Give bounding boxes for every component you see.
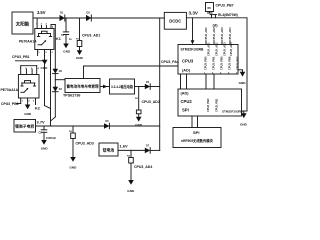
svg-text:CPU3_PB5: CPU3_PB5 [219,56,223,70]
svg-text:CPU3_AD2: CPU3_AD2 [212,27,216,41]
relay K2 [18,66,39,105]
svg-text:TPS62736: TPS62736 [63,94,80,98]
node CPU3_AD4 divider [127,150,152,180]
transistor Q1 [208,12,217,18]
svg-text:CPU3_PB1: CPU3_PB1 [211,56,215,70]
svg-text:CPU3_AD3: CPU3_AD3 [222,42,226,56]
svg-text:CPU2: CPU2 [181,99,193,104]
svg-text:CPU3_PA4: CPU3_PA4 [161,60,179,64]
svg-text:CPU3_AD2: CPU3_AD2 [142,100,160,104]
DCDC converter [164,12,186,29]
wire battery rail [36,125,160,127]
relay K1 [35,24,56,56]
node CPU3 PB pin labels [203,42,239,70]
ground (AD2) [135,117,143,127]
ground (C1) [63,44,71,54]
svg-text:GND: GND [70,166,78,170]
svg-text:GND: GND [63,50,71,54]
wire cell diode to rail [150,149,160,151]
ground (AD4) [127,180,135,193]
wire K1 pin3 down [50,56,52,127]
wire CPU2-SPI links [192,116,198,128]
svg-text:D2: D2 [87,11,91,15]
svg-text:STM32F103RB: STM32F103RB [222,109,244,113]
wire right edge drop [246,18,248,111]
ground (K1 pin2 tap) [41,60,49,70]
diode D6 [104,120,109,129]
svg-text:太阳能: 太阳能 [16,21,30,28]
diode D5 [145,81,150,90]
svg-text:(d): (d) [213,23,219,28]
svg-text:GND: GND [239,81,247,85]
svg-text:CPU3_AD3: CPU3_AD3 [76,142,94,146]
capacitor C1 branch [61,18,72,44]
svg-text:SPI: SPI [182,107,189,112]
wire between diodes [54,74,56,87]
wire K1 pin2 down [45,56,51,109]
svg-text:锂离子电容: 锂离子电容 [15,124,34,129]
wire PB1 to K1 [16,60,45,62]
wire diode column [54,25,56,69]
wire cell rail [118,149,145,151]
ground (AD1) [76,50,84,60]
wire diode to rail [150,86,160,88]
diode D7 [145,145,150,154]
node CPU3_AD2 divider [135,87,160,117]
svg-text:CPU3_PB0: CPU3_PB0 [203,56,207,70]
svg-text:CPU3_AD1: CPU3_AD1 [82,33,100,37]
svg-text:钮电池: 钮电池 [103,148,115,153]
svg-text:CPU3_AD4: CPU3_AD4 [134,165,152,169]
svg-text:CPU3_AD1: CPU3_AD1 [204,27,208,41]
svg-text:蓄电池充电与电管理: 蓄电池充电与电管理 [67,84,100,89]
svg-text:CPU3_AD4: CPU3_AD4 [228,27,232,41]
node CPU3 ADC pin stubs [204,27,232,45]
svg-text:GND: GND [127,189,135,193]
solar panel box [12,12,33,34]
svg-text:GND: GND [240,122,248,126]
node vertical rail [159,18,161,150]
svg-text:R6: R6 [208,6,212,10]
svg-text:1000mF: 1000mF [46,136,57,140]
svg-text:RL4(6M70W): RL4(6M70W) [218,13,238,17]
battery box [14,120,36,133]
wire rail drop to charger [83,66,85,79]
svg-text:CPU2_PB0: CPU2_PB0 [206,98,210,112]
svg-text:3.7V: 3.7V [37,119,46,124]
svg-text:K1: K1 [56,37,61,41]
node CPU3_AD3 divider [69,126,94,157]
diode D1 [60,11,65,22]
svg-text:CPU3_AD3: CPU3_AD3 [220,27,224,41]
wire 3.3V rail [186,17,247,19]
svg-text:1.6V: 1.6V [120,144,129,149]
svg-text:(AD): (AD) [181,91,190,95]
svg-text:CPU3_PB6: CPU3_PB6 [1,102,19,106]
ground (K2) [24,105,32,117]
node CPU3_AD1 divider [76,18,100,50]
wire top bus [33,17,164,19]
svg-text:GND: GND [76,56,84,60]
wireless module box [173,128,221,148]
diode D3 [53,69,63,74]
svg-text:PE70AA1A: PE70AA1A [1,88,19,92]
wire column to battery rail [51,92,56,121]
ground (C2) [41,140,49,150]
svg-text:CPU3_PB7: CPU3_PB7 [216,4,234,8]
wire charger input tap [55,79,65,81]
svg-text:STM32F103RB: STM32F103RB [181,47,205,51]
svg-text:D1: D1 [60,11,64,15]
svg-text:GND: GND [41,146,49,150]
diode D2 [86,11,91,22]
ground (AD3) [70,157,78,170]
svg-text:DCDC: DCDC [169,19,181,24]
svg-text:CPU3_PB7: CPU3_PB7 [235,56,239,70]
svg-text:CPU3_PB6: CPU3_PB6 [227,56,231,70]
wire relay K1 pin1 drop [36,18,38,29]
svg-text:GND: GND [24,112,32,116]
svg-text:3.3-4.2稳压电路: 3.3-4.2稳压电路 [111,84,134,89]
wire CPU3-CPU2 links [181,74,215,89]
ground (CPU3) [238,70,246,85]
svg-text:nRF905无线数传模块: nRF905无线数传模块 [181,138,213,143]
wire PB6 to K2 [17,103,21,105]
wire regulator out [135,86,145,88]
regulator box [110,79,135,94]
svg-text:CPU3_AD4: CPU3_AD4 [229,42,233,56]
svg-text:CPU3_PB1: CPU3_PB1 [12,55,30,59]
svg-text:CPU3_AD1: CPU3_AD1 [206,42,210,56]
svg-text:3.5V: 3.5V [37,10,46,15]
button cell box [99,143,118,156]
wire CPU3 power feed [191,18,195,45]
capacitor C2 branch [39,126,57,140]
node CPU3 bottom pin numbers [204,72,238,74]
svg-text:GND: GND [41,66,49,70]
svg-text:CPU2_PB1: CPU2_PB1 [214,98,218,112]
wire charger to regulator [100,85,110,89]
ground (CPU2) [240,111,248,126]
svg-text:(AD): (AD) [182,69,191,73]
svg-text:CPU3_AD2: CPU3_AD2 [214,42,218,56]
svg-text:3.3V: 3.3V [189,10,199,15]
charger box [65,79,100,93]
svg-text:CPU3: CPU3 [182,59,194,64]
diode D4 [53,87,63,92]
svg-text:PE70AA1A: PE70AA1A [19,40,37,44]
op-amp U1 CPU3 box [178,45,238,75]
resistor R6 (gate) [206,3,214,12]
op-amp U2 CPU2 box [178,89,244,116]
svg-text:SPI: SPI [193,130,199,135]
svg-text:K2: K2 [35,106,40,110]
wire battery sense rail [84,65,179,67]
